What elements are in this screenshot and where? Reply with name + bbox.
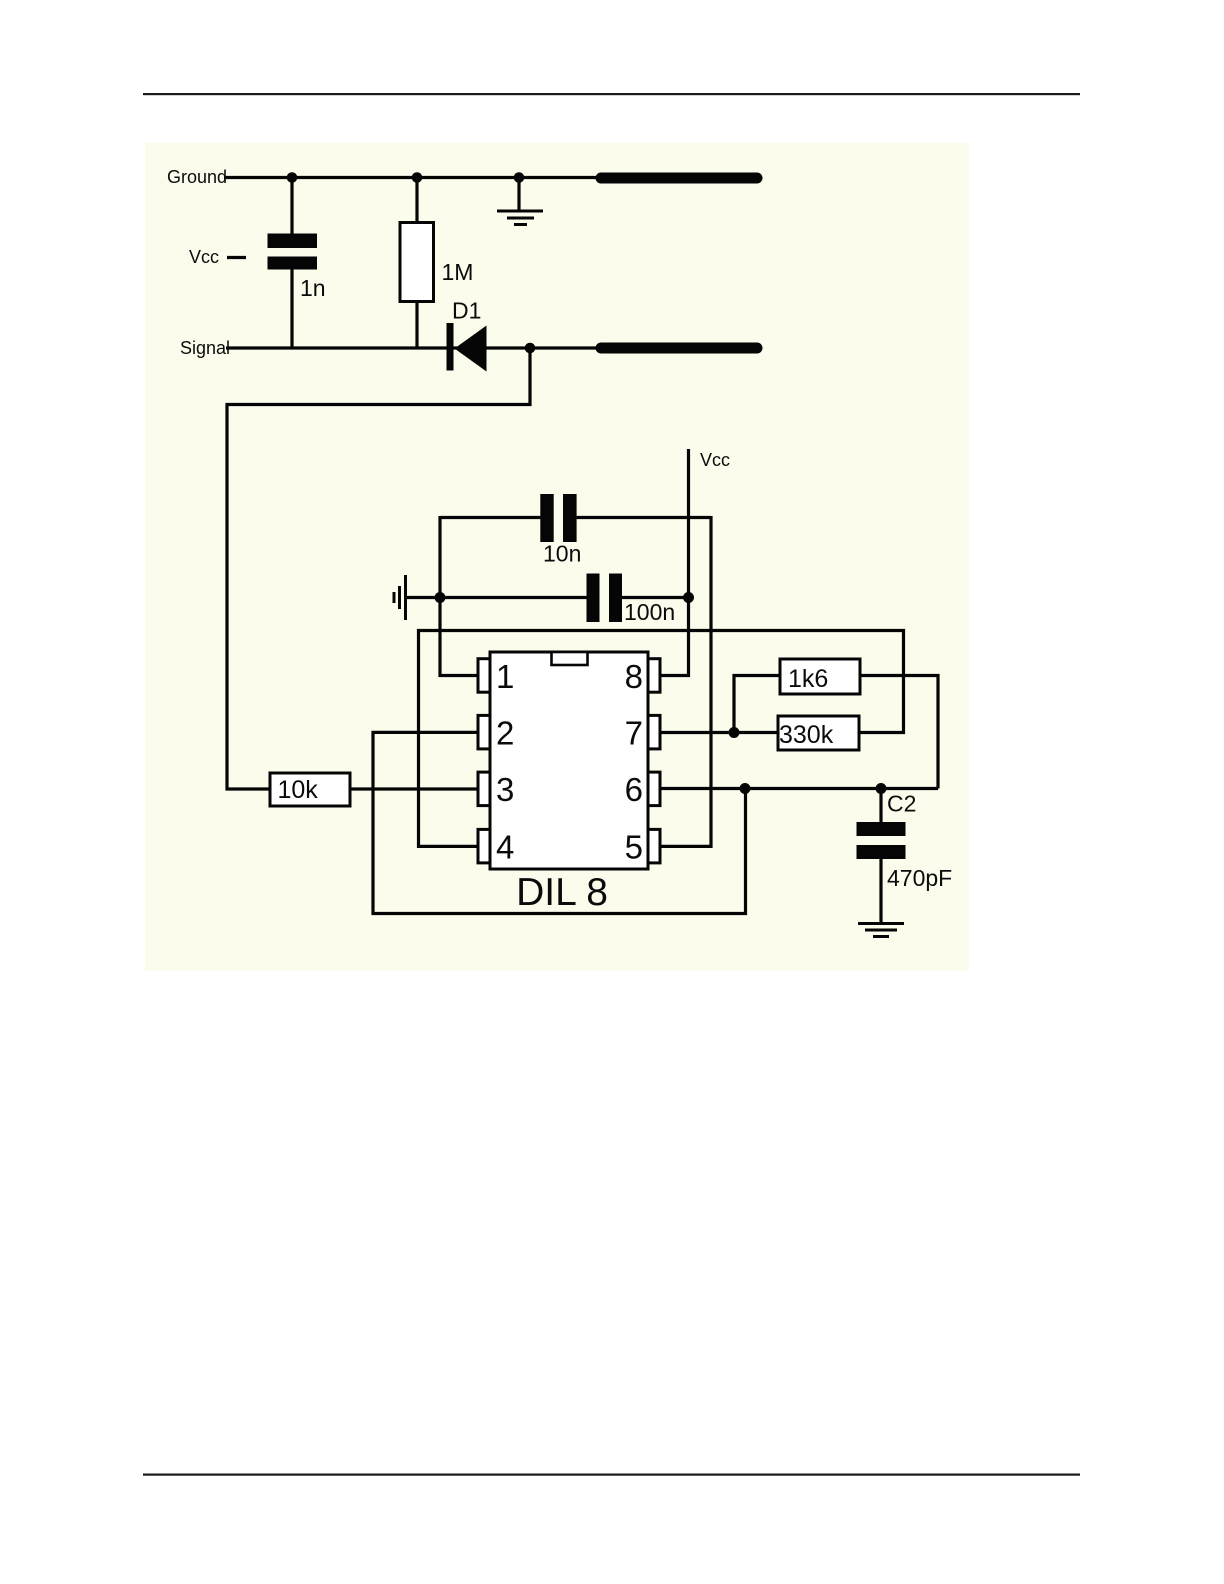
wire 1n top — [290, 178, 293, 235]
wire 10k to pin 3 — [350, 787, 478, 790]
svg-text:1k6: 1k6 — [788, 665, 828, 693]
svg-text:D1: D1 — [452, 298, 481, 324]
svg-text:Vcc: Vcc — [700, 450, 730, 470]
svg-text:4: 4 — [496, 829, 514, 866]
pin box 2 — [478, 715, 490, 749]
wire pin 2 to pin 6 — [373, 732, 746, 913]
wire Vcc supply to pin 8 — [661, 449, 689, 676]
junction dot 100n left — [435, 592, 446, 603]
svg-text:1M: 1M — [442, 259, 474, 285]
svg-text:5: 5 — [625, 829, 643, 866]
schematic background — [145, 143, 969, 971]
wire 10n to pin 1 — [440, 516, 478, 676]
wire ground stub — [517, 178, 520, 212]
svg-text:DIL 8: DIL 8 — [516, 871, 608, 914]
capacitor 10n — [540, 494, 576, 542]
wire 10n to pin 5 — [661, 516, 711, 846]
svg-text:100n: 100n — [624, 599, 675, 625]
junction dot ground bus 2 — [412, 172, 423, 183]
IC notch — [552, 652, 588, 665]
ground symbol C2 — [858, 924, 904, 937]
cable shield bar ground — [601, 173, 757, 184]
junction dot pin7 — [729, 727, 740, 738]
wire junction to 1k6 — [734, 676, 780, 733]
junction dot ground bus 1 — [287, 172, 298, 183]
svg-text:2: 2 — [496, 715, 514, 752]
diode D1 triangle — [455, 326, 487, 372]
junction dot C2 — [876, 783, 887, 794]
wire ground bus — [224, 176, 600, 179]
page rule bottom — [143, 1474, 1080, 1476]
svg-text:Signal: Signal — [180, 338, 230, 358]
wire 10n right — [576, 516, 711, 519]
IC DIL8 body — [490, 652, 648, 869]
pin box 3 — [478, 772, 490, 806]
junction dot pin6 left — [740, 783, 751, 794]
wire 1k6 right — [860, 676, 938, 789]
junction dot 100n right — [683, 592, 694, 603]
ground symbol top — [497, 211, 543, 225]
pin box 5 — [648, 829, 660, 863]
diode D1 cathode bar — [447, 323, 454, 371]
svg-text:6: 6 — [625, 771, 643, 808]
capacitor 1n — [268, 234, 318, 270]
Vcc dash — [227, 256, 246, 259]
page rule top — [143, 93, 1080, 95]
wire C2 top — [879, 789, 882, 824]
wire signal bus — [226, 346, 600, 349]
wire 100n right — [622, 596, 689, 599]
pin box 8 — [648, 659, 660, 693]
svg-text:8: 8 — [625, 658, 643, 695]
svg-text:1: 1 — [496, 658, 514, 695]
wire pin 6 — [661, 787, 938, 790]
svg-text:470pF: 470pF — [887, 865, 952, 891]
svg-text:10k: 10k — [278, 776, 319, 804]
resistor 10k — [270, 773, 350, 806]
resistor 1k6 — [780, 659, 860, 694]
resistor 1M — [400, 223, 434, 302]
svg-text:Vcc: Vcc — [189, 247, 219, 267]
cable shield bar signal — [601, 343, 757, 354]
capacitor 100n — [587, 574, 623, 623]
wire pin 7 to 330k — [661, 731, 777, 734]
svg-text:330k: 330k — [779, 721, 834, 749]
svg-text:7: 7 — [625, 715, 643, 752]
wire signal to 10k — [227, 348, 530, 789]
pin box 4 — [478, 829, 490, 863]
junction dot signal bus — [525, 343, 536, 354]
pin box 7 — [648, 715, 660, 749]
ground symbol mid left — [394, 575, 406, 620]
wire 100n left — [405, 596, 587, 599]
junction dot ground bus 3 — [514, 172, 525, 183]
pin box 1 — [478, 659, 490, 693]
wire 1n bottom — [290, 269, 293, 348]
wire 1M top — [415, 178, 418, 224]
wire 10n left — [440, 516, 541, 519]
svg-text:1n: 1n — [300, 275, 326, 301]
resistor 330k — [778, 716, 859, 750]
svg-text:C2: C2 — [887, 791, 916, 817]
wire pin 4 to 330k right — [419, 631, 904, 847]
svg-text:3: 3 — [496, 771, 514, 808]
svg-text:Ground: Ground — [167, 167, 227, 187]
wire 1M bottom — [415, 301, 418, 348]
pin box 6 — [648, 772, 660, 806]
capacitor C2 — [857, 822, 906, 859]
svg-text:10n: 10n — [543, 541, 581, 567]
wire C2 bottom — [879, 858, 882, 924]
